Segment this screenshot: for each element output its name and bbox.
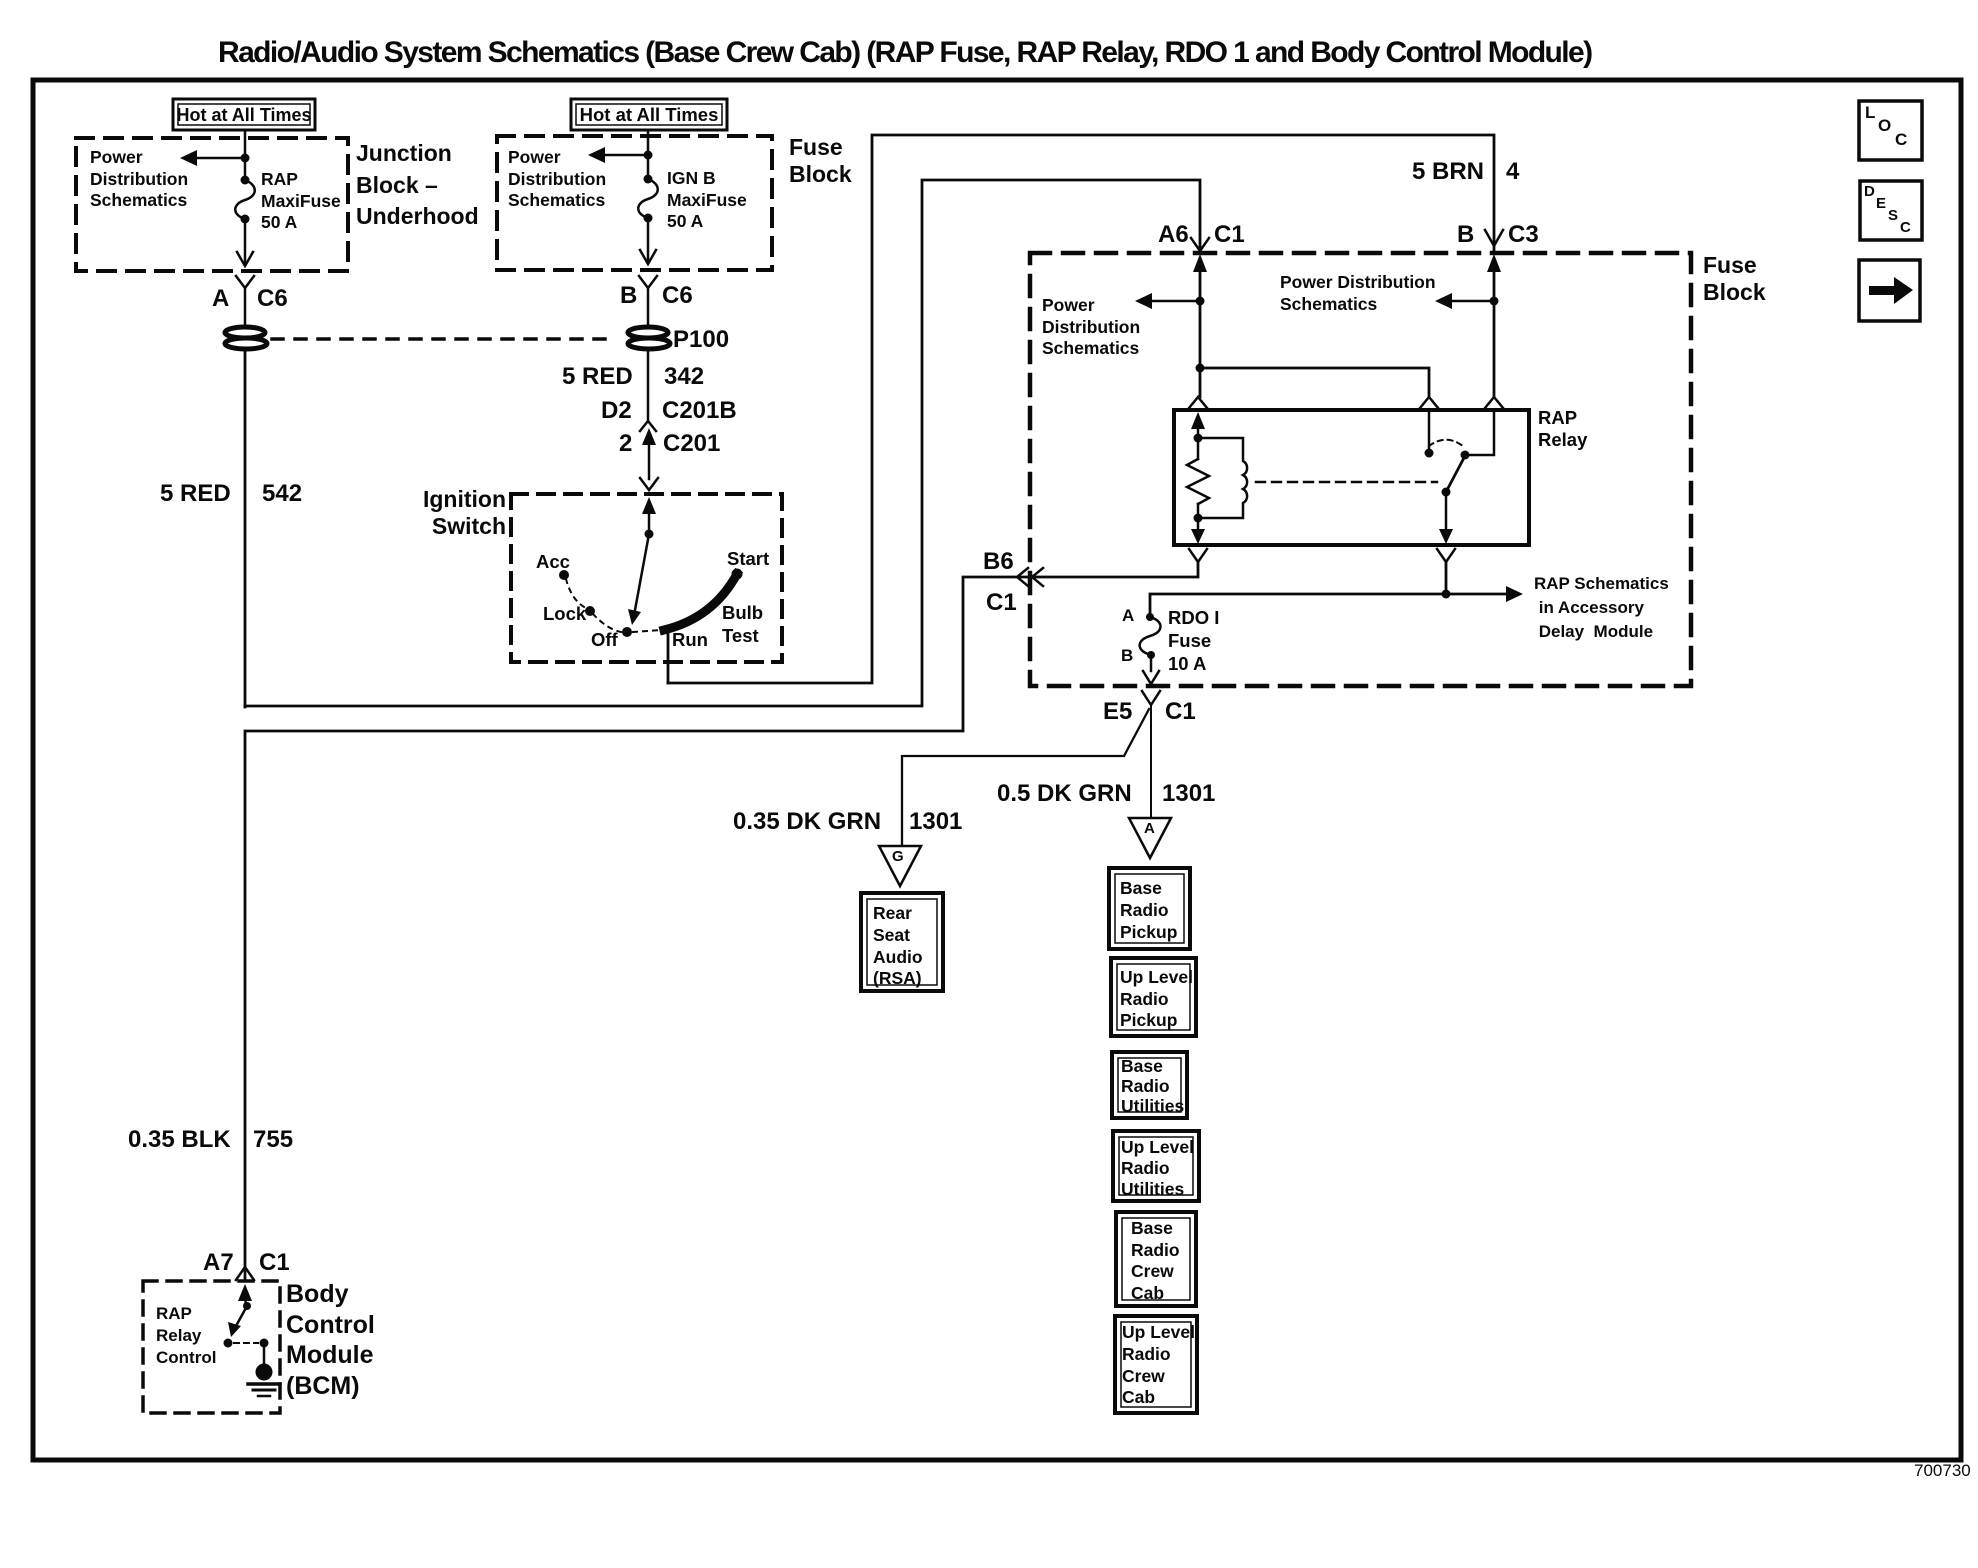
ignition switch wiper dot [645,530,654,539]
wire label 5 BRN 4 [1412,158,1484,186]
grommet P100 label [673,326,729,354]
pin 2 label [619,430,632,458]
contact label Off [591,629,618,651]
grommet P100 right [628,327,670,349]
wire 5 RED 342 down [647,352,650,421]
wire label 0.35 DK GRN 1301 [733,808,881,836]
connector C1 label E5 [1165,698,1196,726]
wire label 5 RED 542 [160,480,231,508]
base radio crew cab label [1131,1218,1180,1304]
relay output chevron left [1189,549,1207,562]
DESC button letters [1864,183,1875,200]
RAP relay control label [156,1303,216,1369]
relay pin chevron left [1189,397,1207,408]
node junction dot 1 [241,154,250,163]
power distribution schematics label 1 [90,147,188,212]
relay coil bottom node [1194,514,1203,523]
up level radio crew cab box [1115,1316,1197,1413]
BCM dashed box [143,1281,280,1413]
fuse pin A label [1122,606,1134,626]
wire from Run contact down [667,632,670,683]
fuse block label top [789,134,852,188]
hot at all times label 1 [173,105,315,126]
relay output chevron right [1437,549,1455,562]
contact Off [622,627,632,637]
connector C201B label [662,397,737,425]
fuse block dashed box right [1030,253,1691,686]
arrow to power distribution schematics 3 [1135,293,1200,309]
junction block underhood dashed box [76,138,348,271]
RDO 1 fuse 10 A label [1168,606,1219,675]
triangle connector G [879,846,921,886]
LOC button letters [1865,103,1875,123]
wire branch to relay switch contact [1200,368,1429,397]
connector 2 C201 arrow [642,428,656,479]
connector E5 C1 chevron [1142,691,1160,705]
arrow into fuse block at A6 [1193,254,1207,272]
relay coil [1198,438,1247,518]
fuse RAP MaxiFuse 50A [235,176,255,224]
document number 700730 [1914,1461,1971,1481]
pin E5 label [1103,698,1132,726]
dashed grommet link wire [272,337,606,341]
pin B label fuse block [1457,221,1474,249]
junction block underhood label [356,138,479,233]
triangle connector A [1129,818,1171,858]
triangle G letter [892,848,904,865]
base radio pickup label [1120,878,1177,943]
DESC button [1860,181,1922,240]
RAP relay label [1538,407,1587,451]
BCM switch top node [243,1302,251,1310]
wire relay common to RDO fuse [1150,562,1451,615]
fuse IGN B MaxiFuse 50A [638,175,658,223]
arrow out of fuse block at E5 [1143,655,1159,684]
relay fixed contact A [1425,410,1434,458]
wire A C6 to grommet [244,288,247,329]
ignition switch label [406,486,506,540]
connector A6 C1 chevron [1191,238,1209,251]
connector C1 label B6 [986,589,1017,617]
RAP relay box [1174,410,1529,545]
contact label Lock [543,603,586,625]
pin A6 label [1158,221,1189,249]
relay coil top node [1194,434,1203,443]
ignition switch wiper arm arrow [628,534,649,625]
fuse pin B label [1121,646,1133,666]
relay common output arrow [1439,492,1453,544]
node dot on A6 wire [1196,297,1205,306]
contact label Run [672,629,708,651]
RAP MaxiFuse 50 A label [261,169,341,234]
pin A7 label [203,1249,234,1277]
triangle A letter [1144,820,1155,837]
base radio pickup box [1109,868,1190,949]
connector C6 label 2 [662,282,693,310]
circuit number 1301 left [909,808,962,836]
up level radio crew cab label [1122,1322,1195,1409]
connector C6 label 1 [257,285,288,313]
wire A6 inside fuse block [1199,268,1202,397]
power distribution schematics label 2 [508,147,606,212]
wire label 0.5 DK GRN 1301 [997,780,1132,808]
wire 542 across up to A6 [245,180,1200,706]
relay coil ground arrow [1191,518,1205,544]
relay switch arm [1442,454,1467,497]
connector chevron above ignition switch [640,478,658,490]
arrow to power distribution schematics 4 [1435,293,1494,309]
pin B label [620,282,637,310]
body control module BCM label [286,1279,375,1401]
fuse block underhood dashed box 2 [497,136,772,270]
circuit number 4 [1506,158,1519,186]
arrow into fuse block at B C3 [1487,254,1501,272]
circuit number 1301 right [1162,780,1215,808]
fuse RDO 1 10A [1140,613,1161,659]
hot at all times box 1 [173,99,315,130]
bulb test thick arc Run to Start [664,569,743,631]
connector B6 C1 chevrons [1017,568,1043,586]
wire from hot feed 1 [244,130,247,180]
circuit number 542 [262,480,302,508]
wire arrow down to fuse block edge [640,218,656,264]
wire label 0.35 BLK 755 [128,1126,231,1154]
connector B C6 chevron [639,276,657,288]
LOC button [1859,101,1922,160]
arrow into ignition switch [642,497,656,534]
arrow to power distribution schematics 2 [588,147,648,163]
base radio utilities label [1121,1056,1184,1116]
relay pin chevron middle [1420,397,1438,408]
connector C201 label [663,430,720,458]
contact Acc [559,570,569,580]
node dot feeding relay contact branch [1196,364,1205,373]
hot at all times label 2 [571,104,727,126]
arrow to power distribution schematics 1 [180,150,245,166]
pin A label [212,285,229,313]
wire Run to B C3 across top [668,135,1494,683]
BCM switch arm arrow [228,1306,247,1337]
connector C1 label A7 [259,1249,290,1277]
connector A C6 chevron [236,276,254,288]
grommet P100 left [225,327,267,349]
BCM RAP relay control contact [224,1339,233,1348]
next arrow button [1859,260,1920,321]
relay fixed contact B [1461,410,1495,460]
node dot on B wire [1490,297,1499,306]
ignition switch dashed box [511,494,782,662]
up level radio pickup label [1120,967,1193,1032]
circuit number 342 [664,363,704,391]
wire label 5 RED 342 [562,363,633,391]
hot at all times box 2 [571,99,727,130]
connector C1 label top [1214,221,1245,249]
connector C3 label [1508,221,1539,249]
connector A7 C1 chevron [236,1267,254,1280]
power distribution schematics label 4 [1280,272,1436,315]
ground [248,1343,280,1396]
wire relay to B6 C1 and BCM [245,562,1198,1281]
rear seat audio RSA label [873,903,923,990]
wire branch to G rear seat audio [902,709,1149,846]
up level radio utilities label [1121,1137,1194,1200]
up level radio utilities box [1113,1131,1199,1201]
bulb test label [722,601,763,647]
arrow into BCM [238,1284,252,1306]
fuse block label right [1703,252,1766,306]
rear seat audio RSA box [861,893,943,991]
wire B C6 to grommet [647,288,650,329]
wire B C3 inside fuse block [1493,268,1496,397]
relay actuate dashed link [1256,481,1437,484]
connector B C3 chevron [1485,230,1503,246]
IGN B MaxiFuse 50 A label [667,168,747,233]
node junction dot 2 [644,151,653,160]
contact label Start [727,548,769,570]
BCM dashed link [234,1342,258,1344]
contact label Acc [536,551,570,573]
pin D2 label [601,397,632,425]
wire arrow down to junction block edge [237,219,253,266]
power distribution schematics label 3 [1042,295,1140,360]
RAP schematics in accessory delay module label [1534,572,1669,644]
relay coil feed arrow [1191,412,1205,438]
relay throw dashed arc [1429,440,1464,447]
contact Lock [585,606,595,616]
wire 0.5 DK GRN down to A [1150,705,1152,818]
pin B6 label [983,548,1014,576]
wire from hot feed 2 [647,130,650,179]
base radio utilities box [1112,1052,1187,1118]
wire 5 RED 542 down [244,352,247,707]
title [218,36,1592,70]
arrow to RAP schematics [1446,586,1523,602]
relay resistor [1187,438,1209,518]
relay pin chevron right [1485,397,1503,408]
base radio crew cab box [1116,1212,1196,1306]
BCM ground contact [260,1339,269,1348]
connector D2 C201B chevron [640,421,656,431]
circuit number 755 [253,1126,293,1154]
dashed detent arc Acc Lock Off Run [566,579,661,632]
up level radio pickup box [1111,958,1196,1036]
